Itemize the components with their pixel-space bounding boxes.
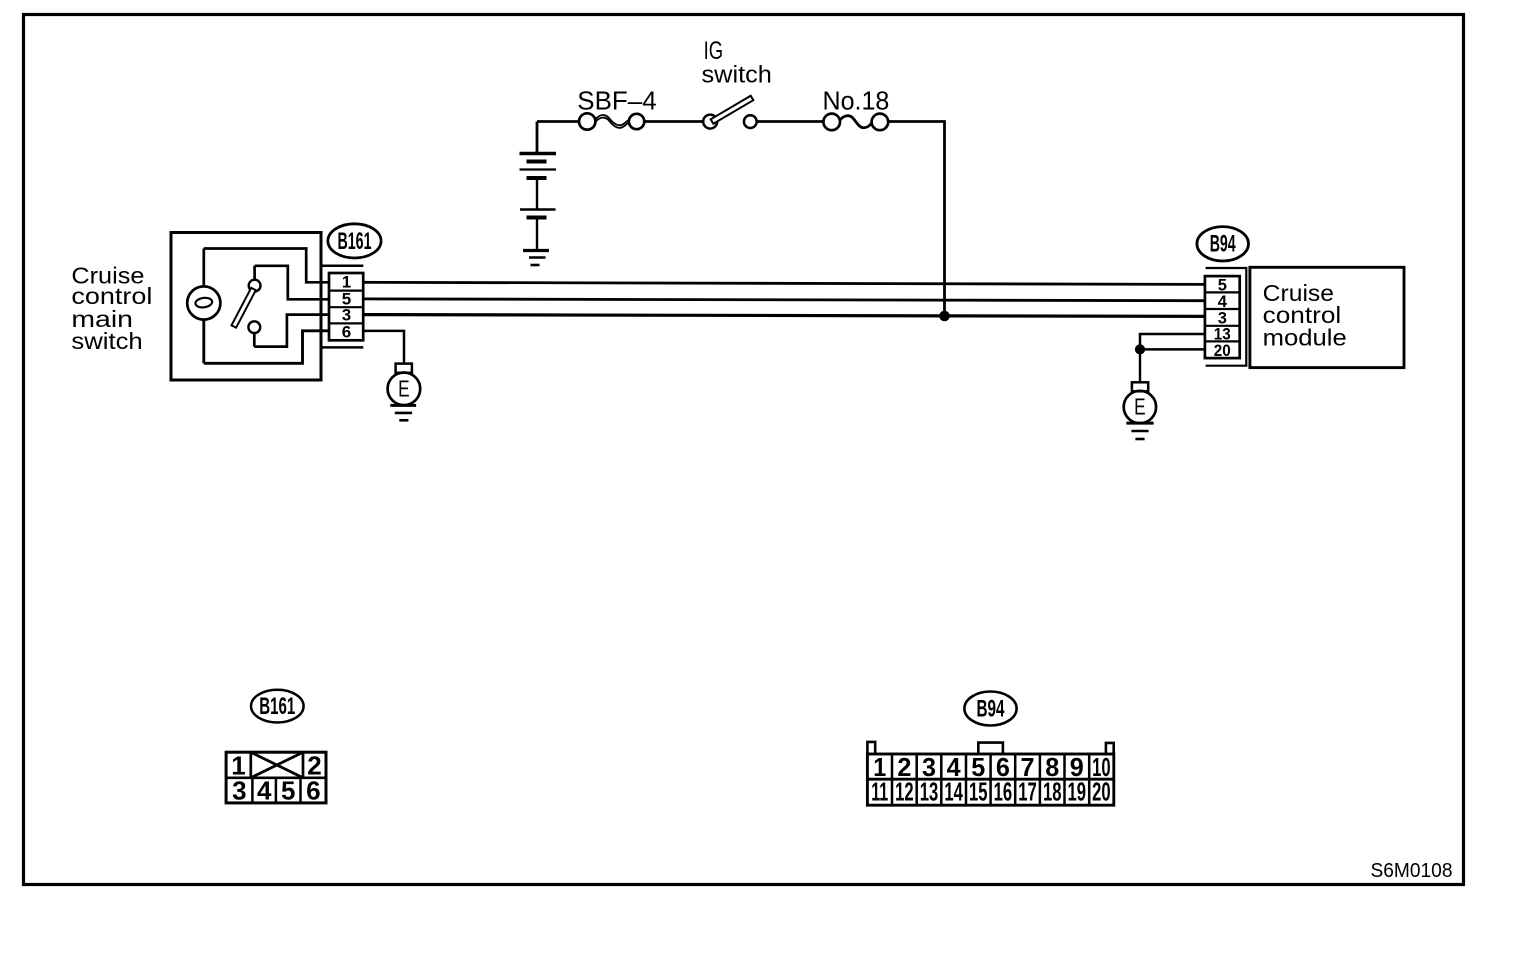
svg-text:14: 14 [944, 777, 963, 807]
svg-text:module: module [1263, 324, 1347, 350]
svg-text:17: 17 [1018, 777, 1037, 807]
wire SBF-4 to IG switch [644, 120, 703, 123]
wire B161-3 to B94-3 [363, 315, 1205, 317]
label IG switch [702, 37, 772, 89]
switch lever [232, 288, 256, 328]
connector B94 (side view) [1205, 268, 1246, 366]
svg-text:13: 13 [920, 777, 939, 807]
pin numbers B161 layout [231, 750, 321, 805]
wire B94-20 to ground [1140, 348, 1205, 351]
pin numbers B94 [1214, 276, 1231, 360]
svg-text:20: 20 [1092, 777, 1111, 807]
wire lamp top to pin 1 [204, 249, 329, 287]
svg-text:No.18: No.18 [823, 85, 890, 115]
wire B161-5 to B94-4 [363, 299, 1205, 301]
svg-text:6: 6 [342, 322, 351, 341]
switch IG [703, 96, 756, 129]
connector label B94 (oval) [1197, 227, 1249, 261]
svg-text:E: E [1134, 394, 1146, 420]
junction node on wire B161-3 [939, 311, 950, 322]
wire B161-1 to B94-5 [363, 282, 1205, 284]
svg-text:4: 4 [257, 776, 272, 806]
lamp (switch illumination) [187, 286, 220, 319]
svg-text:6: 6 [306, 776, 320, 806]
cruise control module box [1250, 267, 1404, 367]
connector label B161 (oval) [328, 224, 381, 258]
svg-text:18: 18 [1043, 777, 1062, 807]
fuse SBF-4 [579, 113, 644, 129]
svg-text:switch: switch [71, 328, 142, 354]
svg-text:SBF–4: SBF–4 [577, 85, 656, 115]
wire lamp bottom to pin 6 [204, 320, 329, 364]
connector B94 (pin layout, bottom) [867, 692, 1113, 806]
wire B161-6 to ground [363, 331, 404, 364]
svg-text:4: 4 [1218, 293, 1228, 311]
svg-text:12: 12 [895, 777, 914, 807]
connector B161 (pin layout, bottom) [226, 690, 326, 803]
fuse No.18 [823, 114, 888, 131]
wire bottom contact to pin 3 [254, 315, 329, 347]
cruise control main switch box [171, 233, 321, 381]
svg-text:E: E [398, 375, 410, 401]
pin numbers B94 layout row 2 [871, 777, 1110, 807]
svg-text:S6M0108: S6M0108 [1371, 859, 1453, 882]
wire No.18 to junction node [888, 122, 944, 317]
svg-text:3: 3 [232, 776, 246, 806]
svg-text:IG: IG [704, 37, 724, 65]
wire IG switch to fuse No.18 [757, 120, 823, 123]
svg-text:switch: switch [702, 62, 772, 89]
pin numbers B94 layout row 1 [873, 752, 1110, 782]
switch contact bottom [248, 321, 260, 333]
svg-text:20: 20 [1214, 342, 1231, 360]
switch contact top [249, 280, 261, 292]
junction node at right ground [1135, 344, 1145, 354]
svg-text:11: 11 [871, 777, 888, 807]
label cruise control module [1263, 280, 1347, 350]
svg-text:B94: B94 [1210, 230, 1236, 257]
svg-text:B94: B94 [977, 696, 1005, 723]
svg-text:B161: B161 [259, 693, 295, 720]
wire top contact to pin 5 [255, 266, 329, 300]
ground E (left) [388, 364, 421, 421]
svg-text:15: 15 [969, 777, 988, 807]
label cruise control main switch [71, 263, 152, 354]
svg-text:5: 5 [281, 776, 295, 806]
svg-text:B161: B161 [338, 228, 372, 255]
pin numbers B161 [342, 273, 351, 342]
wire B94-13 to ground [1140, 334, 1205, 349]
battery ground [523, 218, 549, 266]
ground E (right) [1124, 349, 1156, 439]
svg-text:5: 5 [1218, 276, 1227, 294]
battery [520, 122, 557, 218]
connector B161 (side view) [321, 266, 363, 348]
svg-text:19: 19 [1068, 777, 1087, 807]
wire battery to fuse SBF-4 [537, 120, 579, 123]
svg-text:16: 16 [994, 777, 1013, 807]
